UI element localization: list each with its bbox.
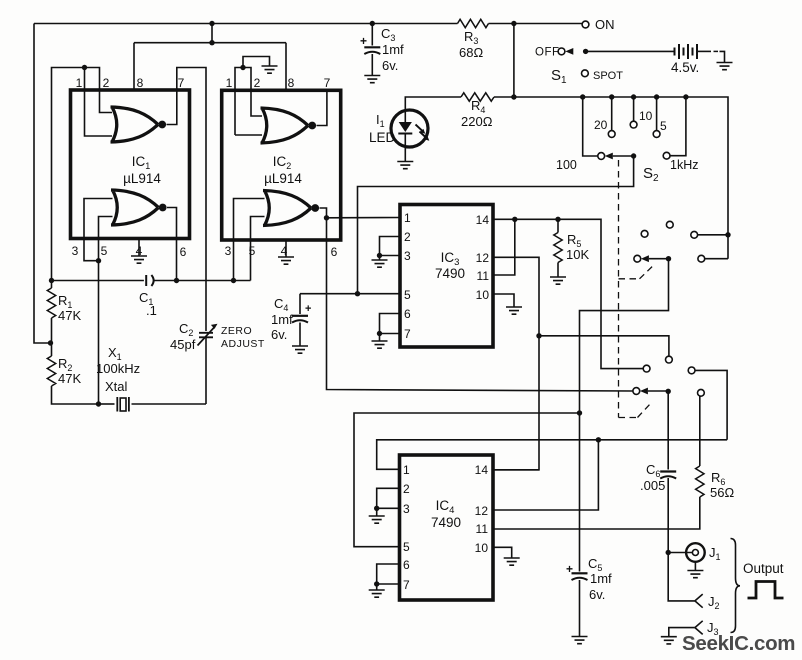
svg-text:6v.: 6v. — [589, 587, 605, 602]
node: R1/R2/left border junction — [48, 340, 53, 345]
node: pin1/2 tie — [82, 65, 87, 70]
svg-text:56Ω: 56Ω — [710, 485, 734, 500]
IC1 NOR gate B — [111, 190, 159, 225]
svg-text:3: 3 — [404, 249, 411, 263]
node: pin1/pin12 junction — [596, 437, 601, 442]
wire: IC1 pin1 into gate A — [85, 68, 113, 137]
svg-text:220Ω: 220Ω — [461, 114, 493, 129]
switch S2 deck3 contact to IC4 pin1 — [688, 367, 695, 374]
svg-text:4.5v.: 4.5v. — [671, 60, 699, 75]
ground: IC4 pins 6,7 — [369, 590, 385, 597]
wire: IC4 pins 6,7 ground — [377, 564, 400, 584]
svg-text:10K: 10K — [566, 247, 589, 262]
switch S2 deck3 contact from IC3 pin12 — [666, 356, 673, 363]
resistor R2 47K — [51, 343, 53, 356]
wire: IC1 gateB inputs from pins 3,5 — [84, 199, 113, 261]
switch S2 deck3 wiper — [633, 388, 640, 395]
node: crystal row junction — [96, 401, 101, 406]
svg-text:6: 6 — [404, 307, 411, 321]
resistor R5 10K — [557, 219, 559, 232]
wire: IC2 output to IC3 pin1 — [327, 217, 401, 219]
IC IC2 uL914 box — [222, 90, 341, 240]
svg-text:11: 11 — [476, 522, 489, 536]
ground: C4 — [292, 346, 308, 353]
wire: +V top rail from left border to R3 — [34, 23, 458, 25]
wire: IC1 pin8 supply drop — [211, 24, 213, 43]
svg-text:LED: LED — [369, 130, 396, 145]
capacitor C4 1mf 6v — [299, 294, 301, 314]
svg-text:3: 3 — [403, 502, 410, 516]
svg-text:47K: 47K — [58, 308, 81, 323]
svg-text:1: 1 — [226, 76, 233, 90]
wire: bus from R4 to right corner, down to S2 deck2 contacts — [494, 97, 728, 259]
ground: IC3 pins 6,7 — [379, 334, 381, 342]
svg-text:5: 5 — [660, 119, 667, 133]
wire: IC3 pin14 row to S2 deck3 contact — [493, 219, 643, 368]
switch S1 SPOT terminal — [582, 70, 589, 77]
wire: deck2 wiper to IC4 Vcc net / C5 — [580, 259, 669, 572]
switch S2 deck2 contacts — [641, 230, 648, 237]
LED I1 — [391, 110, 428, 147]
IC2 NOR gate A — [261, 108, 309, 143]
wire: IC4 pins 2,3 ground — [377, 488, 400, 508]
switch S2 deck1 wiper arrow — [605, 153, 613, 160]
svg-text:3: 3 — [225, 244, 232, 258]
svg-text:µL914: µL914 — [264, 171, 302, 186]
svg-text:2: 2 — [103, 76, 110, 90]
svg-text:SPOT: SPOT — [593, 70, 623, 82]
IC IC4 7490 box — [400, 455, 494, 600]
wire: IC1 gateA output to pin7 and C2 — [167, 68, 207, 332]
dashed linkage S2 — [618, 160, 620, 418]
switch S1 ON terminal — [582, 21, 589, 28]
svg-text:1mf: 1mf — [590, 571, 612, 586]
capacitor C5 1mf 6v — [572, 572, 588, 574]
wire: crystal row — [99, 403, 115, 405]
switch S2 deck2 wiper — [634, 255, 641, 262]
node: junction rail / IC supply drop — [209, 21, 214, 26]
svg-text:3: 3 — [72, 244, 79, 258]
svg-text:6v.: 6v. — [271, 327, 287, 342]
ground: IC3 pin10 — [506, 307, 522, 314]
svg-text:8: 8 — [137, 76, 144, 90]
ground: C5 — [572, 637, 588, 644]
switch S2 deck1: contact 100 — [583, 97, 598, 156]
switch S2 deck1 contact 20 — [611, 97, 613, 131]
capacitor C6 .005 — [660, 470, 676, 472]
wire: IC3 pin12 to IC4 pin14 — [493, 257, 539, 470]
svg-text:1kHz: 1kHz — [670, 158, 698, 172]
ground: IC4 pin10 — [504, 558, 520, 565]
node: junction rail / C3 — [370, 21, 375, 26]
node: C1 row junctions — [49, 278, 54, 283]
wire: IC4 pin10 ground — [493, 547, 512, 558]
capacitor C3 1mf 6v — [371, 24, 373, 46]
svg-text:5: 5 — [404, 288, 411, 302]
jack J1 — [666, 550, 671, 555]
node: junction rail / R4 drop — [511, 21, 516, 26]
svg-text:7: 7 — [178, 76, 185, 90]
wire: Vcc tap to IC4 pin5 — [354, 413, 580, 547]
resistor R3 — [458, 19, 489, 27]
ground: C3 — [364, 76, 380, 83]
svg-text:6v.: 6v. — [382, 58, 398, 73]
svg-text:8: 8 — [288, 76, 295, 90]
battery B1 4.5v — [675, 44, 698, 59]
svg-text:OFF: OFF — [535, 47, 560, 59]
wire: IC4 pin11 output row to R6 — [493, 497, 700, 529]
wire: C1 feedback row — [52, 280, 144, 282]
op-amp/IC IC1 uL914 box — [71, 90, 190, 239]
svg-text:.005: .005 — [640, 478, 665, 493]
switch S2 deck3 contact to R6 — [698, 389, 705, 396]
svg-text:7: 7 — [403, 578, 410, 592]
jack J2 — [668, 553, 695, 601]
svg-text:7: 7 — [404, 327, 411, 341]
svg-text:2: 2 — [404, 230, 411, 244]
ground: IC2 pins 1,2 — [262, 66, 278, 73]
wire: IC3 pin10 ground — [493, 294, 514, 307]
node: pin14 row junctions — [512, 217, 517, 222]
node: IC2 output junction — [324, 215, 329, 220]
svg-text:+: + — [305, 303, 311, 315]
svg-text:7: 7 — [324, 76, 331, 90]
wire: IC4 pin12 up to feedback row — [493, 440, 598, 510]
wire: IC2 pin8 drop — [285, 43, 287, 91]
svg-text:47K: 47K — [58, 371, 81, 386]
svg-text:1mf: 1mf — [382, 42, 404, 57]
crystal X1 100kHz — [117, 397, 129, 412]
svg-text:1: 1 — [76, 76, 83, 90]
svg-text:10: 10 — [476, 288, 490, 302]
svg-text:10: 10 — [475, 541, 489, 555]
wire: IC2 gateB output pin6 down to S2 deck3 wiper row — [320, 208, 633, 391]
IC IC3 7490 box — [400, 205, 493, 348]
svg-text:5: 5 — [101, 244, 108, 258]
wire: IC3 pins 6,7 to ground — [380, 314, 401, 334]
wire: R4 bus from LED corner to R4 — [405, 97, 461, 110]
svg-text:Xtal: Xtal — [105, 379, 128, 394]
svg-text:68Ω: 68Ω — [459, 45, 483, 60]
svg-text:1: 1 — [404, 211, 411, 225]
svg-text:7490: 7490 — [431, 515, 461, 530]
wire: deck3 wiper to C6 — [648, 391, 668, 470]
svg-text:12: 12 — [476, 251, 490, 265]
svg-text:.1: .1 — [146, 303, 157, 318]
wire: IC4 pin1 feedback row — [377, 440, 727, 470]
wire: IC1 pins1+2 tie — [52, 68, 113, 281]
wire: IC2 pins1+2 tie to ground loop — [235, 68, 262, 136]
svg-text:1mf: 1mf — [271, 312, 293, 327]
svg-text:100: 100 — [556, 158, 577, 172]
ground: IC1 pin4 — [138, 239, 140, 257]
svg-text:ON: ON — [595, 17, 615, 32]
node: supply tie — [209, 40, 214, 45]
svg-text:6: 6 — [180, 245, 187, 259]
wire: deck1 wiper to IC3 Vcc net — [358, 156, 634, 294]
node: battery wire junction — [583, 49, 588, 54]
ground: J1 — [694, 562, 696, 571]
svg-text:7490: 7490 — [435, 266, 465, 281]
wire: C4 row to IC3 pin5 — [300, 293, 400, 295]
resistor R6 56ohm — [699, 396, 701, 466]
svg-text:45pf: 45pf — [170, 337, 196, 352]
svg-text:10: 10 — [639, 109, 653, 123]
wire: pin12 tap to S2 deck3 contact — [539, 336, 669, 356]
IC2 NOR gate B — [263, 191, 311, 226]
switch S1 wiper arrow — [565, 48, 573, 55]
svg-text:2: 2 — [403, 482, 410, 496]
wire: S1 to battery — [586, 50, 675, 52]
svg-text:20: 20 — [594, 118, 608, 132]
capacitor C1 .1 — [145, 275, 147, 286]
ground: LED — [397, 162, 413, 169]
switch S2 deck1 contact 10 — [633, 97, 635, 121]
wire: IC2 gateB inputs from pins 3,5 — [234, 199, 265, 281]
svg-text:+: + — [360, 34, 367, 48]
svg-text:14: 14 — [475, 463, 489, 477]
svg-text:µL914: µL914 — [123, 171, 161, 186]
svg-text:6: 6 — [403, 558, 410, 572]
svg-text:ADJUST: ADJUST — [221, 338, 265, 350]
resistor R1 47K — [51, 281, 53, 289]
switch S2 deck1 contact 1kHz — [670, 97, 686, 156]
node: deck1 wiper junction — [631, 153, 636, 158]
node: bus junctions — [511, 94, 516, 99]
IC1 NOR gate A — [111, 107, 159, 142]
ground: IC3 pins 2,3 — [372, 260, 388, 267]
wire: left outer border down to R1/R2 junction — [34, 24, 51, 344]
wire: rail drop to R4 bus — [513, 24, 515, 98]
svg-text:SeekIC.com: SeekIC.com — [682, 632, 795, 655]
wire: IC2 gateA output to pin7 (box top) — [317, 90, 327, 125]
node: pin12 tap — [536, 333, 541, 338]
svg-text:11: 11 — [477, 269, 490, 283]
wire: IC3 pin11 tie to pin14 — [493, 219, 515, 275]
node: Vcc4 tap — [577, 410, 582, 415]
output pulse waveform — [748, 582, 784, 599]
ground: R5 — [550, 277, 566, 284]
switch S2 deck3 contact from IC3 pin14 net — [643, 365, 650, 372]
svg-text:6: 6 — [331, 245, 338, 259]
svg-text:14: 14 — [476, 213, 490, 227]
svg-text:1: 1 — [403, 463, 410, 477]
ground: J3 — [661, 637, 677, 644]
capacitor C2 45pf zero adjust trimmer — [205, 338, 207, 405]
svg-text:5: 5 — [403, 540, 410, 554]
jack J3 — [669, 628, 695, 637]
switch S2 deck1 contact 5 — [656, 97, 658, 131]
wire: IC4 pin14 to IC3 pin12 net — [493, 469, 539, 471]
ground: IC4 pins 2,3 — [369, 516, 385, 523]
wire: rail from R3 to ON terminal — [489, 23, 583, 25]
svg-text:100kHz: 100kHz — [96, 361, 140, 376]
ground: battery — [717, 63, 733, 70]
wire: IC3 pins 2,3 to ground — [380, 237, 401, 261]
svg-text:2: 2 — [254, 76, 261, 90]
resistor R4 — [461, 93, 494, 101]
svg-text:ZERO: ZERO — [221, 325, 252, 337]
output brace — [731, 539, 741, 633]
node: pin3/5 tie — [96, 258, 101, 263]
ground: IC2 pin4 — [285, 240, 287, 257]
svg-text:+: + — [566, 562, 573, 576]
svg-text:Output: Output — [743, 561, 784, 576]
svg-text:12: 12 — [475, 504, 489, 518]
LED arrows — [416, 125, 423, 132]
wire: IC1 gateB output pin6 down to C1 row — [167, 208, 177, 281]
